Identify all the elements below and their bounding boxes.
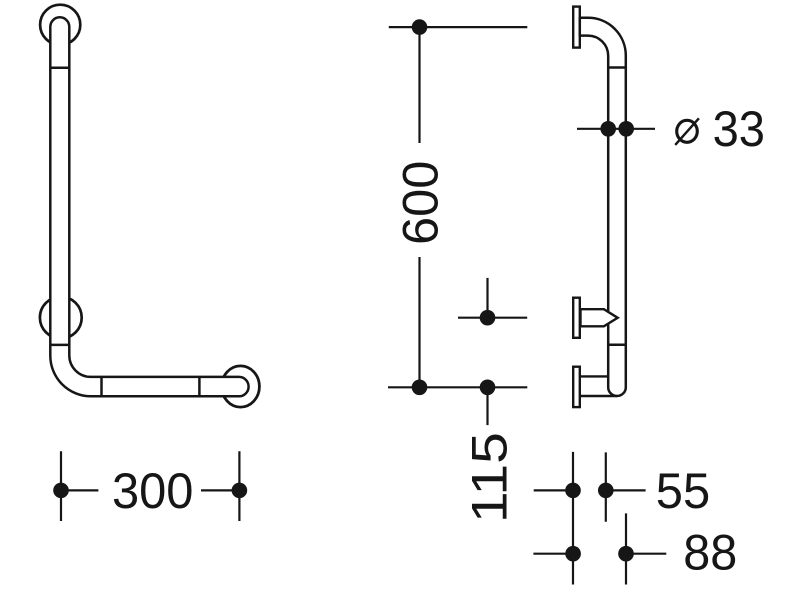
dimension 55: right segment [606, 489, 646, 491]
right view: bar tube side outline [580, 18, 626, 396]
dimension 300: right segment [201, 489, 239, 491]
dimension 600: vertical segment upper [418, 27, 420, 143]
svg-text:55: 55 [656, 463, 710, 519]
right view: bottom wall plate [573, 367, 580, 407]
dimension 55: tick through both rows at wall [572, 452, 574, 585]
left view: middle wall flange circle [40, 297, 82, 339]
dimension 115: lower dot [480, 380, 496, 396]
dimension 55: right dot [598, 483, 614, 499]
dimension 600: top line [389, 26, 528, 28]
svg-text:115: 115 [462, 432, 518, 523]
dimension 600: top dot [412, 19, 428, 35]
svg-text:88: 88 [683, 524, 737, 580]
dimension 300: right dot [232, 483, 248, 499]
dimension 88: left segment [533, 553, 573, 555]
dimension 300: right tick [238, 451, 240, 521]
dimension diameter 33: line [577, 128, 655, 130]
left view: L-shaped grab bar tube outline [50, 17, 248, 396]
left view: upper grip joint line [50, 67, 69, 70]
dimension 55: left segment [534, 489, 573, 491]
dimension 115: upper tick [486, 278, 488, 320]
dimension diameter 33: diameter symbol slash [675, 118, 699, 145]
dimension 300: left dot [53, 483, 69, 499]
dimension 300: left tick [60, 451, 62, 521]
left view: lower grip joint line [50, 344, 69, 347]
dimension 600: bottom dot [412, 380, 428, 396]
dimension diameter 33: diameter symbol circle [677, 120, 698, 142]
dimension 88: right tick [625, 513, 627, 584]
right view: bottom arm bottom line [581, 395, 618, 397]
right view: upper grip joint line [608, 66, 626, 69]
right view: top wall plate [573, 7, 580, 48]
svg-text:600: 600 [392, 161, 448, 246]
dimension 88: left dot [565, 546, 581, 562]
left view: horizontal tube joint line A [100, 377, 103, 396]
right view: middle support arm with pointed end [581, 309, 618, 326]
dimension 88: right dot [618, 546, 634, 562]
dimension 115: upper line [458, 317, 527, 319]
dimension 600: vertical segment lower [418, 257, 420, 387]
dimension 55: left dot [565, 483, 581, 499]
left view: right end flange circle [222, 366, 260, 407]
dimension diameter 33: left dot [600, 121, 616, 137]
svg-text:300: 300 [112, 463, 194, 519]
svg-text:33: 33 [713, 101, 765, 157]
dimension 300: left segment [61, 489, 98, 491]
right view: lower grip joint line [608, 344, 626, 347]
dimension diameter 33: right dot [618, 121, 634, 137]
left view: horizontal tube joint line B [198, 377, 201, 396]
left view: top wall flange circle [40, 5, 80, 45]
right view: bottom arm top line [581, 375, 609, 377]
dimension 88: right segment [626, 553, 666, 555]
dimension 115: lower tick [486, 387, 488, 425]
dimension 55: right tick [605, 452, 607, 521]
dimension 600: bottom line [388, 386, 527, 388]
dimension 115: upper dot [480, 310, 496, 326]
right view: middle wall plate [573, 298, 580, 338]
